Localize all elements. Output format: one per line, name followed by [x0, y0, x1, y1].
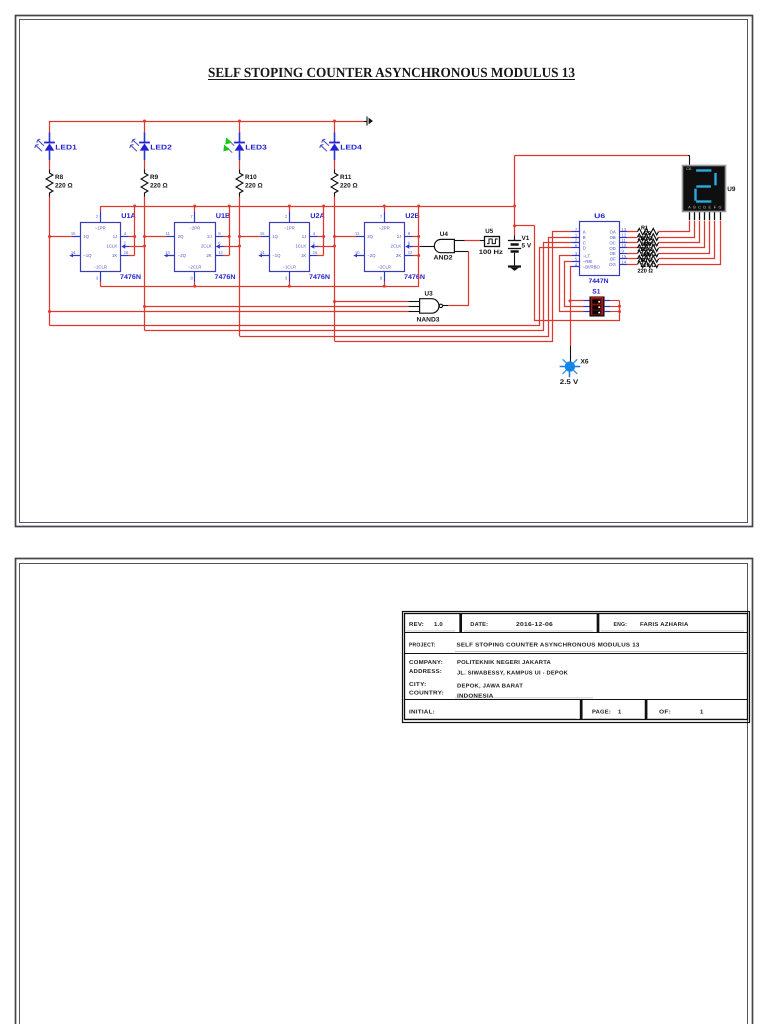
junction U2B ~CLR bus — [383, 285, 386, 288]
svg-text:LED4: LED4 — [340, 144, 362, 151]
svg-text:S1: S1 — [592, 289, 600, 296]
svg-text:2K: 2K — [207, 253, 212, 258]
display pin C — [699, 211, 701, 220]
wire R5 to display segment E — [659, 221, 710, 254]
svg-text:10: 10 — [165, 250, 170, 255]
wire U2B K to high riser — [413, 255, 419, 257]
display pin F — [714, 211, 716, 220]
svg-text:1: 1 — [700, 710, 704, 716]
NAND gate U3 bubble — [439, 304, 442, 307]
LED LED3 — [223, 132, 245, 160]
svg-text:7: 7 — [190, 214, 193, 219]
svg-text:220 Ω: 220 Ω — [150, 182, 168, 189]
svg-text:4: 4 — [313, 231, 316, 236]
svg-text:2J: 2J — [207, 234, 212, 239]
svg-text:B: B — [583, 235, 586, 240]
pin U1A ~CLR stub — [100, 272, 102, 282]
VCC supply symbol — [367, 117, 373, 126]
svg-text:X6: X6 — [581, 359, 589, 366]
svg-text:1: 1 — [575, 232, 578, 237]
title block column dividers row1 — [459, 614, 599, 633]
svg-text:U2A: U2A — [310, 213, 325, 220]
pin U1B ~Q stub (n.c.) — [164, 254, 175, 257]
junction LED3-1Q U2A — [238, 235, 241, 238]
svg-text:5: 5 — [575, 257, 578, 262]
JK flip-flop U1A 7476N — [81, 223, 121, 272]
svg-text:E: E — [709, 205, 712, 209]
svg-text:~1CLR: ~1CLR — [283, 264, 297, 269]
S1 left pin stubs — [584, 301, 590, 312]
resistor R7 220 ohm — [638, 261, 659, 268]
svg-text:~1PR: ~1PR — [284, 225, 295, 230]
svg-text:14: 14 — [71, 250, 76, 255]
svg-text:220 Ω: 220 Ω — [245, 182, 263, 189]
wire U1A J/K riser to high bus — [134, 207, 136, 256]
wire U6 output E to resistor R5 — [627, 253, 638, 255]
wire U2A J to high riser — [318, 236, 324, 238]
U2A pin numbers — [260, 214, 318, 281]
svg-text:A: A — [688, 205, 691, 209]
wire V1+ riser from display CA down to battery — [514, 155, 516, 240]
wire LED4 to R11 — [334, 160, 336, 170]
wire R6 to display segment F — [659, 221, 715, 259]
svg-text:CITY:: CITY: — [409, 682, 427, 688]
pin U1B J stub — [215, 236, 223, 238]
BCD decoder U6 7447N — [580, 222, 620, 276]
svg-text:R10: R10 — [245, 174, 257, 181]
svg-text:OE: OE — [610, 251, 616, 256]
display pin A — [689, 211, 691, 220]
wire NAND3 input1 from LED4/Q0 — [335, 301, 409, 303]
wire S1 common pin2 — [610, 306, 620, 308]
svg-text:U2B: U2B — [405, 213, 420, 220]
svg-text:1K: 1K — [301, 253, 306, 258]
wire U6 output A to resistor R1 — [627, 231, 638, 233]
wire R4 to display segment D — [659, 221, 705, 248]
probe lamp X6 — [560, 359, 581, 377]
junction U2B K riser — [417, 254, 420, 257]
U6 output pin stubs — [619, 232, 627, 265]
JK flip-flop U2B 7476N — [365, 223, 405, 272]
clock source U5 100Hz — [485, 237, 500, 247]
junction VCC-LED2 — [143, 120, 146, 123]
svg-text:ENG:: ENG: — [614, 622, 628, 628]
svg-text:1CLK: 1CLK — [296, 244, 307, 249]
svg-text:14: 14 — [622, 259, 627, 264]
resistor R1 220 ohm — [638, 228, 659, 235]
LED LED2 — [130, 132, 150, 160]
wire AND2 input1 from clock — [454, 240, 484, 242]
svg-text:U6: U6 — [594, 213, 606, 220]
svg-text:PROJECT:: PROJECT: — [409, 643, 436, 649]
display pin B — [694, 211, 696, 220]
resistor R3 220 ohm — [638, 239, 659, 246]
wire U1B K to high riser — [223, 255, 229, 257]
svg-text:1.0: 1.0 — [434, 622, 443, 628]
wire LED3 column to U2A 1Q / U1B CLK / bus B — [239, 197, 241, 337]
wire LED1 to R8 — [49, 160, 51, 170]
svg-text:REV:: REV: — [409, 622, 424, 628]
resistor R11 220 ohm — [331, 170, 338, 197]
svg-text:15: 15 — [71, 231, 76, 236]
junction LED4-NAND in1 — [333, 300, 336, 303]
pin U2A ~Q stub (n.c.) — [258, 254, 269, 257]
wire U6 ~BI/RBO to S1 pin1 and probe X6 — [571, 267, 572, 301]
wire U1A ~CLR to clear bus — [100, 282, 102, 287]
svg-text:~LT: ~LT — [583, 254, 591, 259]
LED LED4 — [320, 132, 340, 160]
svg-text:COMPANY:: COMPANY: — [409, 660, 443, 666]
svg-text:B: B — [693, 205, 696, 209]
wire VCC stub black — [364, 121, 367, 123]
svg-text:2J: 2J — [397, 234, 402, 239]
resistor R6 220 ohm — [638, 256, 659, 263]
wire R2 to display segment B — [659, 221, 695, 238]
junction U1B ~CLR bus — [193, 285, 196, 288]
wire U2A K to high riser — [318, 255, 324, 257]
wire NAND3 output to AND2 input riser — [449, 252, 469, 306]
svg-text:D: D — [703, 205, 706, 209]
wire VCC top rail — [50, 121, 365, 123]
wire U2A J/K riser to high bus — [323, 207, 325, 256]
svg-text:~1Q: ~1Q — [83, 253, 92, 258]
wire R7 to display segment G — [659, 221, 721, 265]
U2B pin numbers — [355, 214, 413, 281]
wire bus Q2/C from LED2 to U6 input C — [145, 243, 572, 331]
wire LED1 anode from VCC — [49, 121, 51, 132]
pin U2A K stub — [310, 255, 318, 257]
U6 inner pin names — [583, 230, 617, 270]
U1B pin numbers — [165, 214, 223, 281]
wire U2A ~PR to high bus — [289, 206, 291, 212]
svg-text:16: 16 — [313, 250, 318, 255]
svg-text:2: 2 — [285, 214, 288, 219]
svg-text:8: 8 — [190, 276, 193, 281]
wire U6 output D to resistor R4 — [627, 247, 638, 249]
svg-text:LED1: LED1 — [55, 144, 77, 151]
U2A inner pin names — [272, 225, 306, 269]
NAND gate U3 body — [420, 299, 439, 314]
svg-text:1K: 1K — [112, 253, 117, 258]
seven-segment display U9 — [683, 166, 726, 212]
svg-text:V1: V1 — [522, 235, 530, 242]
pin U1A J stub — [121, 236, 129, 238]
pin U2A ~CLR stub — [289, 272, 291, 282]
svg-text:~1PR: ~1PR — [95, 225, 106, 230]
svg-text:OC: OC — [609, 240, 615, 245]
svg-text:U3: U3 — [425, 290, 434, 297]
svg-text:CA: CA — [686, 167, 692, 171]
svg-text:PAGE:: PAGE: — [592, 710, 611, 716]
pin U1A CLK stub with edge triangle — [121, 244, 129, 249]
junction U2A riser-high bus — [322, 205, 325, 208]
svg-text:~1Q: ~1Q — [272, 253, 281, 258]
svg-text:~2Q: ~2Q — [178, 253, 187, 258]
pin U2A CLK stub with edge triangle — [310, 244, 318, 249]
resistor R8 220 ohm — [46, 170, 53, 197]
svg-text:2K: 2K — [396, 253, 401, 258]
wire LED3 to R10 — [239, 160, 241, 170]
svg-text:220 Ω: 220 Ω — [55, 182, 73, 189]
JK flip-flop U1B 7476N — [175, 223, 216, 272]
junction U2B riser-high bus — [417, 205, 420, 208]
svg-text:U9: U9 — [727, 186, 736, 193]
junction U2B ~PR bus — [383, 205, 386, 208]
svg-text:R9: R9 — [150, 174, 159, 181]
junction ~BI/RBO - S1 pin1 - X6 — [569, 299, 572, 302]
junction U1B riser-high bus — [228, 205, 231, 208]
svg-text:16: 16 — [124, 250, 129, 255]
wire AND2 input2 stub from NAND output riser — [454, 251, 468, 253]
svg-text:~1CLR: ~1CLR — [94, 264, 108, 269]
junction U1B J riser — [228, 235, 231, 238]
junction U1B ~PR bus — [193, 205, 196, 208]
NAND3 U3 input stubs — [408, 302, 419, 312]
wire LED4 column to U2B 2Q / U2A CLK / NAND in1 / bus A — [334, 197, 336, 342]
wire NAND3 input2 from LED2/Q2 — [145, 306, 409, 308]
wire U1B ~PR to high bus — [194, 206, 196, 212]
wire U2B Q output to LED column — [335, 236, 357, 238]
svg-text:1: 1 — [618, 710, 622, 716]
JK flip-flop U2A 7476N — [270, 223, 310, 272]
AND gate U4 body (mirrored) — [434, 239, 454, 252]
U6 pin numbers — [575, 227, 627, 267]
svg-text:7: 7 — [380, 214, 383, 219]
pin U1B Q stub — [167, 236, 175, 238]
svg-text:7447N: 7447N — [589, 278, 609, 285]
wire LED4 anode from VCC — [334, 121, 336, 132]
resistor R9 220 ohm — [141, 170, 148, 197]
svg-text:U1A: U1A — [121, 213, 136, 220]
wire LED2 anode from VCC — [144, 121, 146, 132]
svg-text:C: C — [583, 240, 586, 245]
svg-text:AND2: AND2 — [434, 254, 453, 261]
wire S1 pin1 stub wire — [570, 300, 584, 302]
pin U1A Q stub — [72, 236, 80, 238]
svg-text:1J: 1J — [113, 234, 118, 239]
svg-text:15: 15 — [260, 231, 265, 236]
wire U6 output B to resistor R2 — [627, 237, 638, 239]
svg-text:9: 9 — [218, 231, 221, 236]
pin U2A J stub — [310, 236, 318, 238]
resistor R4 220 ohm — [638, 245, 659, 252]
pin U2B ~PR stub — [384, 212, 386, 223]
U6 input pin stubs — [572, 232, 580, 267]
wire U2B J/K riser joins high bus and clear bus — [418, 207, 420, 287]
wire bus Q3/D from LED1 to U6 input D — [50, 248, 572, 326]
pin U1B ~PR stub — [194, 212, 196, 223]
wire V1+ branch to switch rail riser — [515, 225, 535, 227]
wire U1A CLK from previous stage Q — [129, 246, 145, 248]
wire bus Q0/A from LED4 to U6 input A — [335, 232, 572, 342]
pin U2B K stub — [405, 255, 413, 257]
svg-text:12: 12 — [622, 232, 627, 237]
svg-text:~RBI: ~RBI — [583, 259, 593, 264]
svg-text:U1B: U1B — [216, 213, 231, 220]
wire U2B ~PR to high bus — [384, 206, 386, 212]
svg-text:220 Ω: 220 Ω — [340, 182, 358, 189]
junction U1A J riser — [133, 235, 136, 238]
wire U1A Q output to LED column — [50, 236, 73, 238]
svg-text:SELF STOPING COUNTER ASYNCHRON: SELF STOPING COUNTER ASYNCHRONOUS MODULU… — [457, 643, 640, 649]
title block column dividers row4 — [580, 699, 647, 719]
junction LED2-NAND in2 — [143, 305, 146, 308]
svg-text:1Q: 1Q — [272, 234, 278, 239]
svg-text:OG: OG — [609, 262, 616, 267]
display pin E — [709, 211, 711, 220]
svg-text:R11: R11 — [340, 174, 352, 181]
DIP switch S1 — [590, 297, 605, 317]
wire U2A ~CLR to clear bus — [289, 282, 291, 287]
junction S1 common pin3 — [618, 310, 621, 313]
wire U6 ~RBI to S1 pin2 — [565, 262, 584, 307]
wire S1 common pin3 — [610, 311, 620, 313]
wire U6 output F to resistor R6 — [627, 258, 638, 260]
junction high bus to V1+ riser — [513, 205, 516, 208]
svg-text:2CLK: 2CLK — [391, 244, 402, 249]
page 2 outer border — [16, 559, 753, 1024]
svg-text:3: 3 — [285, 276, 288, 281]
svg-text:1J: 1J — [302, 234, 307, 239]
svg-text:C: C — [698, 205, 701, 209]
svg-text:7476N: 7476N — [309, 274, 330, 281]
wire U1B J to high riser — [223, 236, 229, 238]
svg-text:7476N: 7476N — [404, 274, 425, 281]
pin U2B CLK stub with edge triangle — [405, 244, 413, 249]
svg-text:12: 12 — [408, 250, 413, 255]
wire U1B Q output to LED column — [145, 236, 167, 238]
svg-text:LED3: LED3 — [245, 144, 267, 151]
svg-text:14: 14 — [260, 250, 265, 255]
svg-text:SELF STOPING COUNTER ASYNCHRON: SELF STOPING COUNTER ASYNCHRONOUS MODULU… — [208, 66, 575, 81]
svg-text:10: 10 — [355, 250, 360, 255]
svg-text:U4: U4 — [440, 231, 449, 238]
svg-text:R7: R7 — [641, 258, 648, 264]
svg-text:~2CLR: ~2CLR — [378, 264, 392, 269]
wire U1B CLK from previous stage Q — [224, 246, 240, 248]
wire U1A J to high riser — [129, 236, 135, 238]
wire U1A ~PR to high bus — [100, 206, 102, 212]
pin U1A ~Q stub (n.c.) — [69, 254, 80, 257]
svg-text:U5: U5 — [485, 228, 493, 235]
wire LED2 column to U1B 2Q / U1A CLK / buses — [144, 197, 146, 331]
svg-text:~BI/RBO: ~BI/RBO — [583, 264, 601, 269]
pin U2B J stub — [405, 236, 413, 238]
svg-text:2Q: 2Q — [178, 234, 184, 239]
svg-text:12: 12 — [218, 250, 223, 255]
svg-text:~2Q: ~2Q — [367, 253, 376, 258]
wire U6 ~LT to S1 pin3 — [560, 256, 584, 312]
wire LED3 anode from VCC — [239, 121, 241, 132]
wire V1+ rail down and right to switch commons — [535, 226, 620, 321]
svg-text:100 Hz: 100 Hz — [479, 249, 503, 256]
wire display CA stub — [688, 155, 690, 157]
svg-text:DATE:: DATE: — [470, 622, 488, 628]
wire bus Q1/B from LED3 to U6 input B — [240, 238, 572, 337]
display pin D — [704, 211, 706, 220]
wire U1B J/K riser to high bus — [229, 207, 231, 256]
svg-text:G: G — [719, 205, 722, 209]
pin U2B Q stub — [356, 236, 364, 238]
svg-text:R8: R8 — [55, 174, 64, 181]
pin U2A ~PR stub — [289, 212, 291, 223]
svg-text:11: 11 — [355, 231, 360, 236]
wire clear bus — [100, 286, 419, 288]
wire down to probe X6 — [570, 301, 572, 362]
pin U1B CLK stub with edge triangle — [216, 244, 224, 249]
junction U2A ~CLR bus — [288, 285, 291, 288]
svg-text:7476N: 7476N — [120, 274, 141, 281]
junction LED3-U1B CLK — [238, 245, 241, 248]
pin U1A ~PR stub — [100, 212, 102, 223]
junction V1+ branch — [513, 224, 516, 227]
svg-text:9: 9 — [622, 249, 625, 254]
display pin G — [720, 211, 722, 220]
page 2 inner border — [20, 564, 748, 1024]
junction LED1-1Q — [48, 235, 51, 238]
pin U2B ~CLR stub — [384, 272, 386, 282]
pin U1B ~CLR stub — [194, 272, 196, 282]
wire NAND3 output stub — [443, 305, 449, 307]
U1A pin numbers — [71, 214, 129, 281]
wire U1A K to high riser — [129, 255, 135, 257]
svg-text:~2PR: ~2PR — [379, 225, 390, 230]
svg-text:220 Ω: 220 Ω — [638, 268, 654, 274]
LED LED1 — [35, 132, 55, 160]
svg-text:LED2: LED2 — [150, 144, 172, 151]
junction LED2-2Q — [143, 235, 146, 238]
title block inner border — [405, 614, 748, 720]
wire U2A CLK from previous stage Q — [318, 246, 335, 248]
junction LED4-U2A CLK — [333, 245, 336, 248]
svg-text:1CLK: 1CLK — [107, 244, 118, 249]
S1 right pin stubs — [604, 301, 610, 312]
pin U2B ~Q stub (n.c.) — [353, 254, 364, 257]
junction U1A riser-high bus — [133, 205, 136, 208]
svg-text:JL. SIWABESSY, KAMPUS UI - DEP: JL. SIWABESSY, KAMPUS UI - DEPOK — [457, 671, 568, 677]
svg-text:OB: OB — [610, 235, 616, 240]
svg-text:ADDRESS:: ADDRESS: — [409, 669, 442, 675]
wire LED2 to R9 — [144, 160, 146, 170]
battery V1 — [508, 241, 521, 266]
svg-text:9: 9 — [408, 231, 411, 236]
wire U2B CLK from gated clock (AND2 output) — [413, 246, 420, 248]
resistor R2 220 ohm — [638, 234, 659, 241]
U1B inner pin names — [178, 225, 212, 269]
junction LED4-2Q U2B — [333, 235, 336, 238]
svg-text:FARIS AZHARIA: FARIS AZHARIA — [640, 622, 689, 628]
wire NAND3 input3 from LED1/Q3 — [50, 311, 409, 313]
svg-text:11: 11 — [166, 231, 171, 236]
svg-text:3: 3 — [96, 276, 99, 281]
junction VCC-LED4 — [333, 120, 336, 123]
svg-text:COUNTRY:: COUNTRY: — [409, 690, 444, 696]
svg-text:INITIAL:: INITIAL: — [409, 710, 435, 716]
svg-text:~2PR: ~2PR — [189, 225, 200, 230]
svg-text:4: 4 — [124, 231, 127, 236]
wire U6 output C to resistor R3 — [627, 242, 638, 244]
title block value underlines — [406, 631, 744, 719]
U2B inner pin names — [367, 225, 401, 269]
resistor R10 220 ohm — [236, 170, 243, 197]
wire U2A Q output to LED column — [240, 236, 262, 238]
wire LED1 column to 1Q/U1A and NAND/7447 buses — [49, 197, 51, 326]
junction U2A J riser — [322, 235, 325, 238]
svg-text:2CLK: 2CLK — [201, 244, 212, 249]
wire U2B ~CLR to clear bus — [384, 282, 386, 287]
wire R1 to display segment A — [659, 221, 690, 232]
page 1 inner border — [20, 20, 748, 523]
